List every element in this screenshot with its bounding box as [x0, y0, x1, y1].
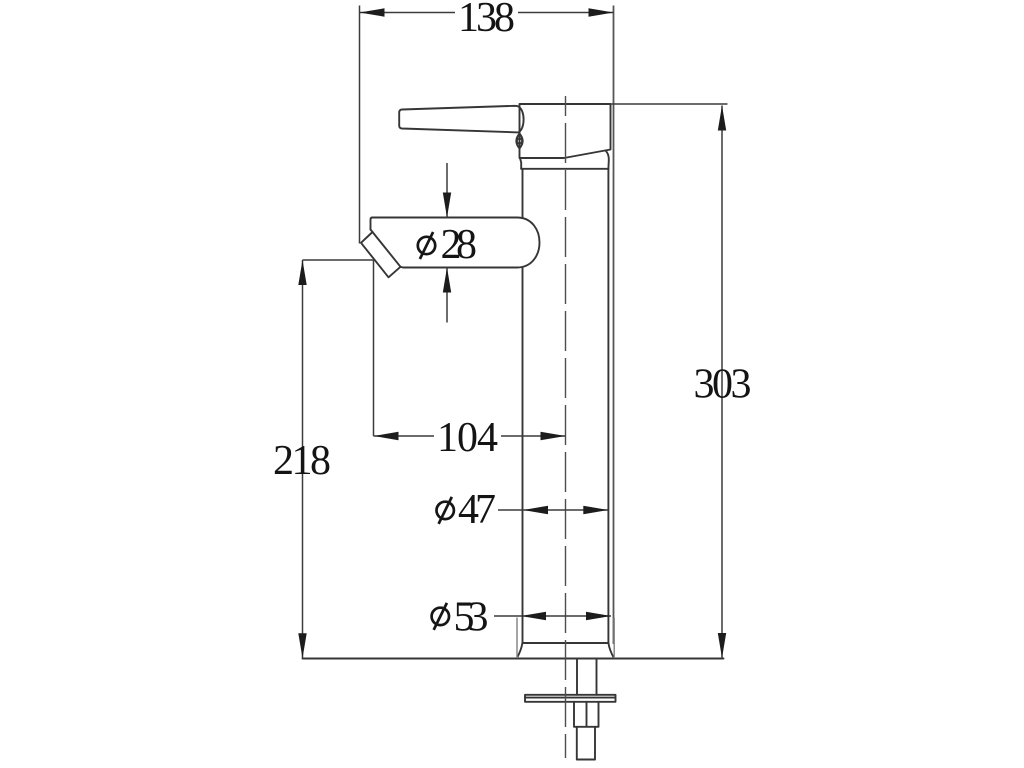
set screw circle	[517, 138, 522, 143]
svg-text:104: 104	[437, 415, 498, 461]
dimension line 104	[374, 435, 566, 437]
phi symbol d28	[418, 237, 435, 254]
collar right curve	[606, 151, 609, 169]
threaded shank	[577, 659, 597, 695]
dimension line 303	[721, 106, 723, 659]
extension line 303 top	[611, 103, 728, 105]
mounting surface line	[303, 658, 724, 660]
centerline	[565, 96, 567, 758]
arrowhead 218 up	[298, 260, 306, 285]
extension line d53 left	[516, 618, 518, 659]
spout cut face	[373, 232, 401, 267]
svg-text:47: 47	[458, 487, 496, 533]
arrowhead d28 down	[443, 193, 451, 218]
body right edge	[607, 169, 609, 643]
phi symbol d53	[432, 608, 449, 625]
lower tailpiece tube	[577, 727, 595, 760]
lock nut	[574, 702, 599, 727]
arrowhead 218 down	[298, 633, 306, 658]
svg-text:28: 28	[441, 222, 478, 268]
arrowhead 303 down	[718, 633, 726, 658]
arrowhead 138 right	[589, 8, 614, 16]
body left edge	[522, 169, 524, 643]
svg-text:53: 53	[454, 595, 489, 641]
extension line d53 right	[613, 618, 615, 659]
base flare top line	[523, 642, 609, 644]
extension line 138 right	[613, 6, 615, 645]
svg-text:138: 138	[458, 0, 515, 41]
collar left edge	[520, 158, 521, 169]
arrowhead d28 up	[443, 268, 451, 293]
dimension line d47	[498, 509, 608, 511]
arrowhead 104 left	[374, 432, 399, 440]
washer plate	[525, 695, 616, 702]
base flare left side	[517, 643, 522, 658]
svg-text:303: 303	[694, 362, 752, 408]
dimension line d28 lower	[446, 268, 448, 323]
arrowhead 104 right	[541, 432, 566, 440]
dimension line d53	[494, 615, 611, 617]
arrowhead 138 left	[360, 8, 385, 16]
arrowhead 303 up	[718, 106, 726, 131]
spout outline	[371, 218, 540, 268]
base flare right side	[608, 643, 613, 658]
dimension line 138	[360, 12, 614, 14]
handle lever	[399, 106, 523, 133]
extension line 218 top	[303, 259, 375, 261]
dimension line d28 upper	[446, 163, 448, 218]
arrowhead d47 right	[583, 506, 608, 514]
extension line 138 left	[359, 6, 361, 244]
cartridge head body	[520, 104, 611, 158]
arrowhead d53 right	[586, 612, 611, 620]
svg-text:218: 218	[273, 438, 331, 484]
body top line	[521, 168, 608, 170]
extension line 104	[373, 260, 375, 436]
phi symbol d47	[437, 502, 454, 519]
set screw lens	[516, 134, 522, 149]
dimension line 218	[302, 260, 304, 659]
arrowhead d47 left	[523, 506, 548, 514]
arrowhead d53 left	[521, 612, 546, 620]
aerator tip	[361, 230, 401, 278]
